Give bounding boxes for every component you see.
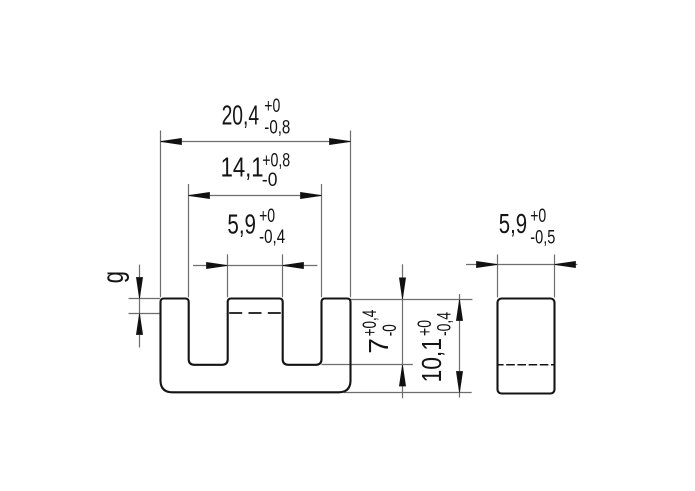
svg-text:5,9: 5,9 <box>499 208 527 239</box>
svg-text:-0: -0 <box>262 170 278 191</box>
svg-text:+0,8: +0,8 <box>262 151 290 172</box>
svg-text:5,9: 5,9 <box>227 208 256 239</box>
svg-text:7: 7 <box>363 338 394 354</box>
svg-text:14,1: 14,1 <box>221 151 264 182</box>
svg-text:g: g <box>97 271 130 283</box>
svg-text:-0,4: -0,4 <box>435 312 456 336</box>
svg-text:-0,4: -0,4 <box>259 227 285 248</box>
svg-text:+0: +0 <box>264 96 280 117</box>
svg-text:-0: -0 <box>380 324 401 336</box>
svg-text:-0,8: -0,8 <box>264 117 290 138</box>
svg-text:+0,4: +0,4 <box>360 309 381 336</box>
svg-text:20,4: 20,4 <box>222 99 260 130</box>
svg-text:+0: +0 <box>415 320 436 336</box>
svg-text:-0,5: -0,5 <box>530 227 555 248</box>
svg-text:+0: +0 <box>530 206 546 227</box>
svg-text:10,1: 10,1 <box>416 338 447 383</box>
svg-text:+0: +0 <box>259 206 275 227</box>
